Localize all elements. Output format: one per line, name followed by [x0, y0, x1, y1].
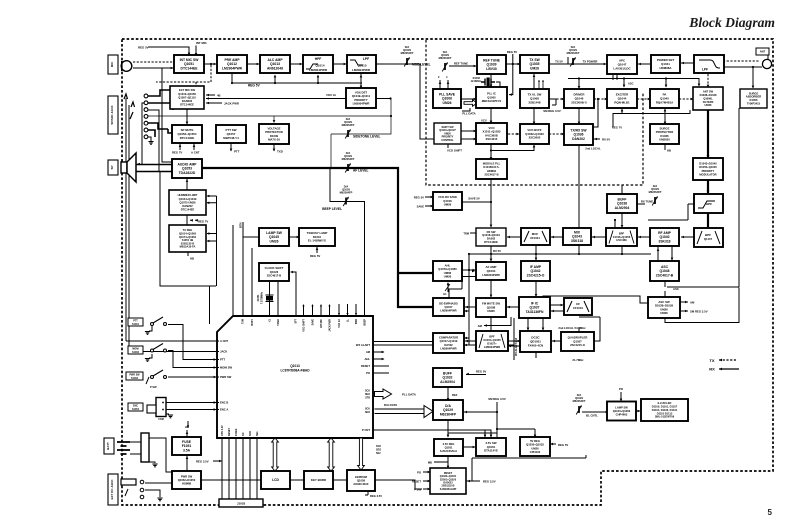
block DE-EMPHASIS Q1017	[433, 298, 464, 316]
block PRE AMP Q1012	[217, 55, 247, 73]
switch MONI contacts	[149, 344, 167, 359]
wire bpf-mix	[592, 236, 606, 239]
wire pllsave-pllic	[461, 98, 476, 100]
junction rail3	[621, 253, 623, 255]
wire ascsw reg	[680, 310, 688, 313]
legend RX solid arrow	[709, 367, 739, 372]
svg-text:HPF: HPF	[315, 57, 322, 61]
wire HPF to LPF	[333, 63, 347, 66]
wire buff1038 line	[637, 203, 645, 205]
svg-text:LPF: LPF	[363, 57, 369, 61]
wire tx reg MB HB	[187, 252, 189, 256]
wire batt gnd	[148, 458, 155, 463]
svg-text:4B: 4B	[217, 93, 221, 97]
svg-text:Q1107: Q1107	[704, 237, 713, 241]
block 3.5V REG Q1031	[434, 439, 463, 456]
wire 35reg down	[434, 455, 448, 462]
svg-text:REG 5V: REG 5V	[558, 443, 568, 447]
svg-text:ENC B: ENC B	[220, 401, 228, 405]
wire AF trunk thick	[202, 168, 433, 307]
svg-text:SEO: SEO	[365, 411, 370, 414]
wire sm reg rail	[448, 402, 497, 433]
block IF IC Q1037	[519, 297, 550, 318]
wire hpf-bpf	[707, 213, 709, 227]
switch PTT contacts	[149, 317, 167, 331]
svg-text:HPF: HPF	[706, 202, 712, 206]
wire txul right stub	[549, 99, 556, 105]
wire cpu right am stub	[373, 351, 384, 353]
junction rail4	[490, 253, 492, 255]
wire fuse top	[186, 430, 188, 437]
wire clock shift right	[292, 272, 296, 316]
svg-text:RESET: RESET	[361, 364, 370, 368]
svg-text:S1001: S1001	[132, 323, 140, 326]
wire quad top	[578, 327, 580, 332]
switch PTT S1005 label	[128, 318, 143, 326]
junction apc rail3	[578, 77, 580, 79]
svg-text:MB: MB	[428, 461, 432, 465]
jack pin 5	[144, 121, 148, 125]
junction da rail2	[496, 428, 498, 430]
svg-text:P CNT: P CNT	[362, 428, 370, 432]
wire vco-module vert	[490, 144, 492, 159]
wire jack pin7 gnd	[148, 137, 151, 141]
wire ref tune arrow	[449, 65, 476, 67]
svg-text:LCD: LCD	[272, 478, 279, 482]
wire mix-mcf	[551, 236, 562, 239]
wire dashed mic return	[156, 65, 211, 85]
svg-text:LM2904PWR: LM2904PWR	[309, 68, 328, 72]
wire enc a	[166, 409, 216, 411]
wire ext mic down	[186, 109, 188, 124]
wire apc sense rail	[568, 74, 699, 87]
antenna circle	[762, 59, 771, 68]
label BATT	[104, 438, 114, 454]
svg-text:PLL DATA: PLL DATA	[462, 112, 475, 116]
svg-text:PO: PO	[366, 371, 370, 375]
svg-text:CPU 3.3V: CPU 3.3V	[221, 425, 224, 436]
wire lamp sw to lamp	[289, 236, 300, 239]
svg-text:ASC: ASC	[673, 287, 679, 291]
CPU pin tick PWR SW	[217, 376, 219, 378]
block VCO-RX SAVE Q1016	[433, 192, 462, 210]
wire txul down to vcobuff	[533, 108, 535, 124]
block FUSE F1051	[172, 437, 201, 455]
svg-text:HB: HB	[190, 257, 194, 261]
block DCSC QD1051	[520, 331, 551, 352]
wire modulator-hpf	[707, 180, 709, 193]
svg-text:Q1013: Q1013	[290, 364, 300, 368]
svg-text:LPF: LPF	[702, 68, 708, 72]
block COMPARATOR	[433, 333, 464, 353]
block D/A Q1029	[433, 400, 463, 420]
wire rxsw down to afamp	[490, 254, 492, 261]
CPU pin tick JACK	[217, 351, 219, 353]
block TX REG	[169, 225, 206, 252]
wire PRE AMP to ALC AMP	[247, 63, 260, 66]
svg-text:COM: COM	[158, 418, 164, 421]
svg-text:2nd LOCAL 54.3MHz: 2nd LOCAL 54.3MHz	[558, 326, 586, 330]
block INT MIC SW Q1051	[174, 55, 204, 73]
wire PTT down	[230, 143, 232, 151]
svg-text:REG 5V: REG 5V	[138, 46, 149, 50]
block LPF Q1015	[347, 55, 376, 73]
wire vox det down from LPF rail	[360, 83, 362, 88]
wire left trunk 1	[125, 98, 127, 341]
svg-text:PTT: PTT	[234, 150, 240, 154]
crystal X1002 12.8MHz	[481, 78, 495, 89]
wire comp left	[374, 341, 433, 343]
svg-text:SP/MIC JACK: SP/MIC JACK	[110, 105, 114, 125]
svg-text:SIDETONE LEVEL: SIDETONE LEVEL	[353, 135, 380, 139]
svg-text:Q1014: Q1014	[315, 64, 324, 68]
wire ific-cf right	[550, 304, 564, 307]
svg-text:TXMA: TXMA	[277, 319, 280, 326]
ground dc jack	[157, 498, 162, 501]
svg-text:LM2904PWR: LM2904PWR	[352, 68, 371, 72]
svg-text:TX 5V: TX 5V	[555, 60, 563, 64]
wire 8m reg rail	[469, 245, 651, 254]
wire P CNT long	[373, 430, 491, 437]
CPU top pin LL	[347, 304, 349, 316]
wire vco save labels	[425, 197, 433, 206]
svg-text:VCO SHIFT: VCO SHIFT	[447, 149, 462, 153]
CPU top pin INT MIC	[320, 305, 322, 316]
wire vco shift label line	[447, 144, 449, 148]
wire power set to apc	[638, 63, 650, 66]
svg-text:S1003: S1003	[131, 377, 139, 380]
svg-text:REG 3.5V: REG 3.5V	[196, 460, 209, 464]
svg-text:SAVE 5V: SAVE 5V	[468, 197, 480, 201]
wire reset rail right	[466, 455, 586, 481]
svg-text:JACK PWR: JACK PWR	[224, 101, 239, 105]
svg-text:WX ALART: WX ALART	[356, 343, 370, 347]
block PA Q1045	[650, 89, 679, 108]
svg-text:D1027+: D1027+	[487, 342, 497, 346]
wire cpu right po stub	[373, 372, 389, 374]
wire pa to antsw dashed	[679, 98, 694, 101]
block 5V REG	[520, 437, 550, 456]
svg-text:REG 7V: REG 7V	[198, 219, 208, 223]
wire xtal to pllic	[496, 82, 500, 87]
svg-text:12.8MHz: 12.8MHz	[471, 79, 482, 83]
svg-text:REG 5V: REG 5V	[507, 50, 517, 54]
CPU Q1013 LC87F5608A-FBAD	[217, 316, 373, 438]
wire JACK PWR arrow	[206, 102, 222, 105]
junction	[231, 82, 233, 84]
speaker symbol	[121, 153, 136, 182]
CPU top pin VOX 1A	[338, 304, 340, 316]
wire lpf dashed down	[707, 74, 709, 87]
wire 35reg-35sw	[463, 446, 476, 449]
svg-text:VCV: VCV	[481, 119, 487, 123]
svg-text:D/A DATA: D/A DATA	[384, 403, 398, 407]
wire left trunk 2	[128, 105, 130, 352]
svg-text:HB: HB	[667, 149, 671, 153]
junction rail0	[468, 253, 470, 255]
wire reg35 into reset	[467, 480, 480, 483]
block QUADRUPLER Q1057	[561, 332, 594, 351]
wire ascsw am	[680, 301, 688, 304]
svg-text:VCO SHIFT: VCO SHIFT	[303, 318, 306, 331]
block HPF Q1014	[303, 55, 333, 73]
svg-text:MOD LEVEL: MOD LEVEL	[412, 63, 431, 67]
wire ascsw to ific	[543, 296, 647, 303]
jack pin 3	[144, 108, 148, 112]
svg-text:SM REG 3.5V: SM REG 3.5V	[543, 109, 561, 113]
wire vco out to vcobuff bottom	[491, 145, 534, 151]
wire lpf to power set	[681, 62, 694, 65]
switch PWR contacts	[146, 370, 167, 384]
wire psw into reset	[423, 488, 431, 491]
LCD bus arrow	[272, 438, 279, 471]
svg-text:RX: RX	[709, 367, 715, 372]
wire cpu bottom pin 2	[228, 438, 230, 500]
svg-text:SCK: SCK	[249, 431, 252, 436]
jack pin 2	[144, 101, 148, 105]
EEPROM bus arrow	[358, 438, 365, 470]
CPU top pin JACK PWR	[329, 305, 331, 316]
wire mix top stub	[578, 227, 580, 245]
svg-text:AHL: AHL	[364, 357, 370, 361]
PLL section dashed sub-border	[426, 40, 643, 185]
wire lampsw po	[620, 392, 622, 401]
block TX UL SW Q1008	[520, 89, 549, 108]
wire reg7v rail	[613, 108, 690, 127]
wire cpu right ahl stub	[373, 358, 384, 360]
svg-text:ANT: ANT	[760, 49, 766, 53]
block APC Q1047	[607, 55, 637, 74]
wire vco-vcobuff	[508, 133, 519, 135]
svg-text:SAVE: SAVE	[417, 205, 425, 209]
svg-text:LM2904PWR: LM2904PWR	[484, 345, 500, 349]
svg-text:K RES: K RES	[235, 428, 238, 436]
svg-text:VOX 1A: VOX 1A	[338, 319, 341, 328]
block MIX Q1043	[563, 228, 591, 245]
svg-text:S1054: S1054	[132, 408, 140, 411]
svg-text:TX SWQ1035UM26: TX SWQ1035UM26	[529, 58, 540, 71]
CPU pin tick ENC A	[217, 409, 219, 411]
wire deemph-afamp vert	[449, 276, 462, 299]
svg-text:VOX 1A: VOX 1A	[326, 93, 336, 97]
svg-text:5: 5	[768, 508, 773, 517]
wire enc b	[166, 402, 216, 404]
wire cpu bottom pin 3	[235, 438, 237, 500]
wire mic to INT MIC SW	[133, 67, 174, 69]
svg-text:BEEP: BEEP	[364, 319, 367, 326]
wire cpu right reset stub	[373, 365, 389, 367]
junction	[274, 82, 276, 84]
block EEPROM Q1058	[347, 470, 375, 491]
jack pin 7	[144, 135, 148, 139]
wire ascsw stub	[664, 291, 666, 297]
wire quad right up	[594, 317, 600, 341]
svg-text:D1043+D1045D1050+Q1046PRIORITY: D1043+D1045D1050+Q1046PRIORITYMODULATOR	[699, 162, 717, 177]
wire afamp down to fmmute	[490, 280, 492, 297]
svg-text:HVC389: HVC389	[616, 238, 627, 242]
jack check mark 1	[124, 94, 128, 99]
block SP MUTE	[172, 125, 202, 143]
svg-text:2nd LOCAL: 2nd LOCAL	[585, 147, 601, 151]
block LCD	[261, 471, 290, 489]
wire pa down to surge prot	[664, 108, 666, 124]
block AHL	[433, 261, 462, 281]
block SHIFT SW	[434, 123, 461, 144]
wire am line	[484, 317, 511, 326]
legend TX dashed arrow	[709, 358, 737, 363]
wire cpu bottom pin 1	[221, 438, 223, 500]
block BPF front-end	[694, 228, 723, 247]
wire buff rx tune	[637, 203, 645, 205]
wire jack pin4 long right	[148, 99, 391, 169]
svg-text:REG 7V: REG 7V	[172, 151, 182, 155]
block SURGE ABSORBER D1056	[740, 89, 767, 108]
wire driver top	[578, 79, 580, 89]
wire ALC AMP to HPF	[290, 63, 303, 66]
wire jack to speaker feed 1	[142, 103, 145, 165]
svg-text:MIC: MIC	[110, 61, 114, 67]
block BUFF Q1038	[607, 194, 637, 213]
switch PWR label	[126, 372, 143, 380]
D/A DATA double line hollow arrow	[375, 406, 434, 418]
tiny arrows above TX UL SW	[538, 80, 544, 88]
trimmer D/A bl cntl	[573, 393, 586, 415]
svg-text:P SW: P SW	[150, 385, 157, 389]
wire dcsc-?	[508, 345, 520, 348]
wire module pll down	[490, 179, 492, 227]
block ILLUM LED	[641, 399, 688, 421]
block TX BUSY LAMP D1010	[299, 228, 335, 246]
label SP/MIC JACK J1002	[108, 96, 118, 134]
svg-text:BUSY: BUSY	[251, 319, 254, 326]
svg-text:PTT: PTT	[220, 358, 225, 362]
block BPF tone with trapezoid glyph	[476, 331, 508, 351]
wire fuse-pwr	[186, 455, 188, 471]
wire cpu bottom pin 5	[249, 438, 251, 500]
wire txrx right rx5v	[593, 138, 600, 140]
svg-text:BPF: BPF	[489, 335, 495, 339]
svg-text:REF: REF	[452, 393, 458, 397]
ground jack	[148, 142, 153, 145]
block BPF X1016 with trapezoid glyph	[606, 228, 637, 246]
wire ptt switch to cpu	[168, 325, 216, 360]
wire mcf-rxsw	[507, 236, 520, 239]
wire jack pin2 down	[148, 103, 173, 110]
svg-text:Block Diagram: Block Diagram	[688, 15, 775, 30]
jack pin 1	[144, 94, 148, 98]
svg-text:SO: SO	[242, 432, 245, 436]
wire pll data	[462, 108, 470, 111]
block CLOCK SHIFT Q1023	[259, 263, 289, 281]
wire VOX DET to EXT MIC	[206, 98, 391, 100]
svg-text:TXD: TXD	[277, 150, 283, 154]
block PRIORITY MODULATOR	[693, 158, 723, 180]
svg-text:MONI SW: MONI SW	[220, 366, 233, 370]
wire ascsw bottom	[665, 288, 739, 323]
svg-text:BSB: BSB	[355, 319, 358, 324]
block 3.5V SW Q1061	[476, 438, 506, 456]
wire pll-vco vert	[490, 108, 492, 123]
svg-text:SM REG 3.5V: SM REG 3.5V	[488, 397, 506, 401]
wire AHL to AF AMP	[462, 270, 476, 277]
wire asc down label	[665, 108, 739, 287]
ground ptt switch	[145, 332, 150, 335]
block PWR SW Q1052	[172, 471, 201, 489]
svg-text:PO: PO	[417, 471, 421, 475]
block LAMP SW Q1103	[607, 402, 636, 421]
wire cpu bottom pin 6	[256, 438, 258, 500]
wire right trunk 469	[464, 254, 469, 345]
svg-text:EXT DC JACK: EXT DC JACK	[110, 479, 114, 500]
crystal X1051 7.3728MHz	[257, 291, 274, 304]
jack check mark 2	[131, 102, 135, 107]
CPU top pin BUSY	[251, 248, 253, 316]
svg-text:MODULE PLLD1016/1017+HDM332SC4: MODULE PLLD1016/1017+HDM332SC4617-B	[483, 162, 501, 177]
trimmer D/A beep level	[340, 185, 353, 207]
wire txrx bottom 2ndlocal	[578, 145, 580, 227]
svg-text:EXT MIC SWQ1010+Q1056Q1057+Q11: EXT MIC SWQ1010+Q1056Q1057+Q1110DAN202DT…	[178, 88, 196, 106]
wire reg35 bottom	[213, 460, 222, 462]
svg-text:S1002: S1002	[132, 351, 140, 354]
wire tx sw out	[549, 57, 568, 64]
svg-text:COMPARATORQ1017+Q1019DA502LM29: COMPARATORQ1017+Q1019DA502LM2904PWR	[439, 336, 458, 351]
wire pwr out right	[201, 480, 422, 489]
label SP	[108, 160, 118, 175]
wire rfamp-bpf	[638, 236, 650, 239]
block PLL SAVE Q1006	[433, 89, 461, 108]
wire INT MIC SW to PRE AMP	[204, 63, 217, 66]
svg-text:REG 3.5V: REG 3.5V	[370, 494, 382, 498]
svg-text:REG 5V: REG 5V	[476, 370, 486, 374]
wire reset into reset	[423, 480, 431, 483]
CPU top pin BSB	[355, 304, 357, 316]
wire vcobuff-txrx	[549, 133, 564, 135]
wire hpf left line	[648, 204, 695, 220]
block VOX DET Q1049	[346, 88, 376, 108]
block LPF transmit	[694, 55, 724, 73]
CPU pin tick PTT	[217, 359, 219, 361]
svg-text:BATT: BATT	[106, 442, 110, 450]
block POWER SET Q1041	[651, 55, 680, 73]
CPU top pin VCO SHIFT	[303, 305, 305, 316]
junction da rail	[496, 411, 498, 413]
wire buff top	[621, 185, 623, 194]
block VCO BUFF Q1032	[520, 124, 549, 144]
svg-text:SM REG 3.5V: SM REG 3.5V	[690, 310, 708, 314]
PLL DATA hollow arrow	[375, 389, 392, 399]
wire rx5v label	[490, 246, 492, 254]
wire clock shift down	[270, 282, 279, 316]
wire 4B arrow	[206, 94, 215, 97]
svg-text:RX 5V: RX 5V	[602, 138, 610, 142]
block KEY BORD	[304, 471, 333, 489]
wire lamp reg5v	[316, 246, 318, 253]
wire audio amp down	[186, 178, 188, 190]
svg-text:REG 3.5V: REG 3.5V	[483, 480, 496, 484]
wire pwr switch	[168, 376, 216, 378]
svg-text:TX POWER: TX POWER	[583, 60, 598, 64]
microphone symbol	[121, 61, 132, 72]
wire sp mute reg7v	[180, 143, 194, 150]
wire buff-da	[447, 386, 449, 400]
ground battery	[152, 464, 157, 467]
label EXT DC JACK	[108, 474, 118, 505]
wire wx alart	[373, 318, 514, 360]
wire fmmute down	[490, 317, 492, 331]
wire dcjack circles	[145, 483, 172, 497]
block PTT SW Q1057	[216, 125, 246, 143]
wire trunk 233	[232, 225, 234, 316]
